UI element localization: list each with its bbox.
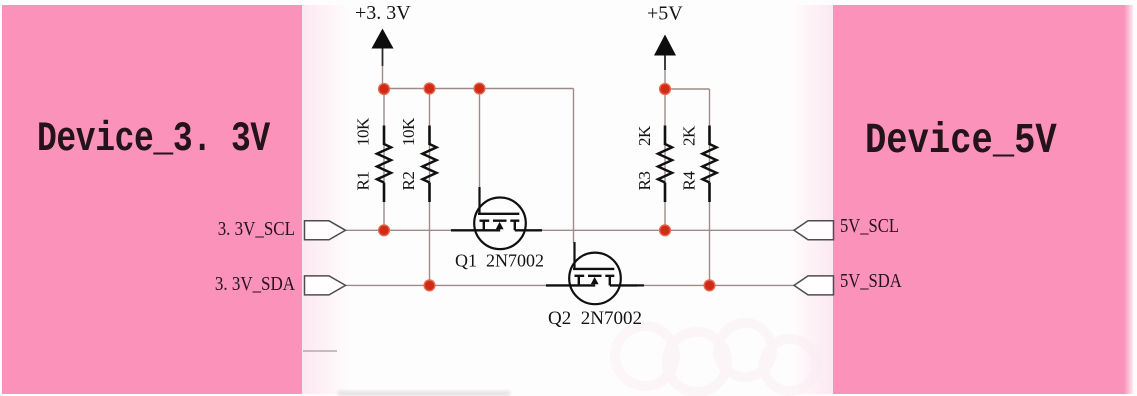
- wire R4 branch: [709, 89, 711, 285]
- junction SDA / R2: [424, 280, 435, 291]
- transistor Q1: [451, 187, 542, 249]
- resistor R3: [658, 126, 672, 203]
- wire SDA net: [346, 284, 795, 286]
- wire R1 branch: [383, 89, 385, 231]
- port 3.3V_SDA: [305, 276, 346, 295]
- junction SCL / R1: [379, 225, 390, 236]
- resistor R2: [423, 126, 437, 203]
- wire R3 branch: [664, 89, 666, 230]
- svg-text:R4: R4: [680, 171, 699, 191]
- faint pink tint right of circuit: [790, 5, 833, 394]
- port label 3.3V_SDA: [178, 274, 295, 296]
- svg-text:2K: 2K: [680, 125, 699, 146]
- wire stub bottom left: [303, 350, 337, 352]
- junction 3.3V rail / R2: [424, 83, 435, 94]
- svg-text:R3: R3: [635, 172, 654, 191]
- wire 3.3V rail: [384, 88, 574, 90]
- junction SCL / R3: [660, 225, 671, 236]
- label Device_3.3V: [37, 116, 270, 163]
- svg-text:Q2 2N7002: Q2 2N7002: [548, 308, 642, 329]
- transistor Q2: [546, 242, 637, 304]
- bottom edge artifact: [338, 391, 510, 396]
- wire 5V rail: [665, 88, 710, 90]
- wire Q1 gate drop: [479, 89, 481, 189]
- junction 5V rail / R3: [660, 84, 671, 95]
- port label 5V_SCL: [840, 216, 899, 238]
- junction SDA / R4: [704, 280, 715, 291]
- svg-text:+5V: +5V: [647, 3, 683, 25]
- port 3.3V_SCL: [305, 221, 346, 240]
- power +3.3V symbol: [355, 2, 411, 89]
- faint pink tint left of circuit: [302, 5, 350, 394]
- svg-text:Q1 2N7002: Q1 2N7002: [455, 251, 544, 271]
- device block Device_3.3V: [2, 5, 302, 394]
- power +5V symbol: [647, 3, 683, 90]
- label Device_5V: [865, 116, 1057, 165]
- device block Device_5V: [833, 5, 1124, 394]
- port 5V_SDA: [794, 276, 834, 295]
- svg-text:R1: R1: [354, 172, 373, 191]
- watermark rings: [615, 323, 816, 392]
- junction 3.3V rail / R1: [379, 84, 390, 95]
- resistor R1: [377, 126, 391, 203]
- wire R2 branch: [429, 89, 431, 286]
- junction 3.3V rail / Q1 gate: [474, 83, 485, 94]
- port label 3.3V_SCL: [178, 219, 295, 241]
- svg-text:R2: R2: [399, 172, 418, 191]
- svg-text:10K: 10K: [399, 117, 418, 146]
- port label 5V_SDA: [840, 271, 902, 293]
- svg-text:10K: 10K: [354, 117, 373, 146]
- wire Q2 gate drop: [573, 89, 575, 244]
- svg-text:+3. 3V: +3. 3V: [355, 2, 411, 24]
- resistor R4: [703, 126, 717, 203]
- port 5V_SCL: [794, 221, 834, 240]
- wire SCL net: [346, 229, 795, 231]
- svg-text:2K: 2K: [635, 125, 654, 146]
